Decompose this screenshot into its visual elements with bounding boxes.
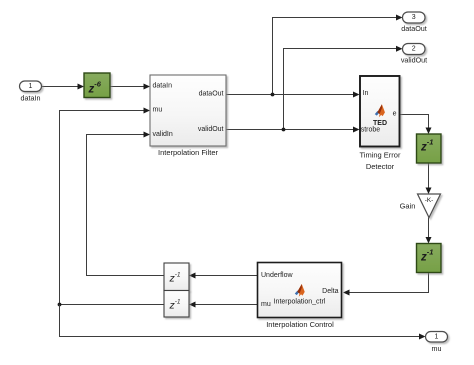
- wire z^-6 to Interpolation Filter dataIn: [110, 86, 146, 88]
- subsystem Interpolation Filter: [150, 75, 226, 146]
- arrowhead into lower z^-1: [189, 302, 196, 308]
- delay block Unit Delay2 z^-1: [417, 244, 442, 273]
- junction dataOut node: [271, 93, 275, 97]
- wire validOut net: filter to TED strobe and up to outport 2: [226, 49, 399, 130]
- svg-text:TED: TED: [373, 120, 387, 127]
- delay block Unit Delay1 z^-1: [417, 134, 442, 163]
- arrowhead into filter dataIn: [144, 84, 151, 90]
- wire Unit Delay2 to Interpolation Control Delta: [347, 273, 429, 293]
- gain block -K-: [418, 194, 441, 218]
- matlab logo in TED: [375, 104, 385, 117]
- svg-text:mu: mu: [432, 344, 442, 353]
- outport 3: [403, 12, 426, 23]
- svg-text:validIn: validIn: [153, 131, 173, 138]
- svg-text:Interpolation Control: Interpolation Control: [266, 320, 334, 329]
- arrowhead into outport 2: [396, 46, 403, 52]
- svg-text:Gain: Gain: [400, 202, 416, 211]
- delay block lower z^-1: [164, 291, 189, 318]
- wire Unit Delay1 to Gain: [428, 163, 430, 190]
- wire TED e to Unit Delay1: [400, 115, 429, 131]
- svg-text:In: In: [363, 90, 369, 97]
- matlab logo in Interpolation_ctrl: [295, 284, 305, 297]
- junction mu node: [58, 303, 62, 307]
- svg-text:dataIn: dataIn: [21, 93, 41, 102]
- wire upper z^-1 to filter validIn: [87, 135, 165, 276]
- arrowhead into z^-6: [78, 84, 85, 90]
- svg-text:Detector: Detector: [366, 162, 395, 171]
- junction validOut node: [282, 128, 286, 132]
- wire dataOut net: filter to TED In and up to outport 3: [226, 18, 399, 95]
- arrowhead into Unit Delay1: [426, 128, 432, 135]
- svg-text:2: 2: [412, 46, 416, 53]
- svg-text:validOut: validOut: [198, 126, 224, 133]
- svg-text:mu: mu: [261, 301, 271, 308]
- svg-text:Delta: Delta: [322, 288, 338, 295]
- wire mu out of control to lower z^-1: [193, 304, 258, 306]
- svg-text:mu: mu: [153, 107, 163, 114]
- svg-text:dataIn: dataIn: [153, 83, 173, 90]
- svg-text:Interpolation_ctrl: Interpolation_ctrl: [274, 298, 326, 305]
- arrowhead into TED In: [353, 92, 360, 98]
- svg-text:e: e: [393, 111, 397, 118]
- arrowhead into filter validIn: [144, 132, 151, 138]
- svg-text:3: 3: [412, 14, 416, 21]
- svg-text:1: 1: [29, 83, 33, 90]
- arrowhead into control Delta: [343, 290, 350, 296]
- arrowhead into filter mu: [144, 108, 151, 114]
- delay block upper z^-1: [164, 263, 189, 291]
- MATLAB function block TED: [360, 76, 400, 147]
- outport 2: [403, 44, 426, 55]
- wire dataIn port to z^-6: [42, 86, 81, 88]
- svg-text:dataOut: dataOut: [401, 24, 427, 33]
- arrowhead into Gain: [426, 188, 432, 195]
- arrowhead into outport 1: [419, 334, 426, 340]
- MATLAB function block Interpolation_ctrl: [258, 263, 342, 318]
- inport 1 dataIn: [20, 81, 42, 92]
- wire Gain to Unit Delay2: [428, 218, 430, 240]
- wire Underflow to upper z^-1: [193, 275, 258, 277]
- svg-text:Timing Error: Timing Error: [360, 151, 401, 160]
- wire lower z^-1 to filter mu: [60, 111, 165, 305]
- svg-text:validOut: validOut: [401, 56, 427, 65]
- delay block z^-6: [84, 73, 110, 98]
- arrowhead into Unit Delay2: [426, 237, 432, 244]
- arrowhead into TED strobe: [353, 127, 360, 133]
- arrowhead into outport 3: [396, 15, 403, 21]
- wire mu node to outport 1: [60, 305, 422, 337]
- svg-text:Underflow: Underflow: [261, 272, 293, 279]
- svg-text:1: 1: [435, 334, 439, 341]
- svg-text:-K-: -K-: [425, 197, 434, 204]
- outport 1 mu: [426, 332, 448, 343]
- svg-text:Interpolation Filter: Interpolation Filter: [158, 148, 219, 157]
- svg-text:dataOut: dataOut: [199, 91, 224, 98]
- arrowhead into upper z^-1: [189, 273, 196, 279]
- svg-text:strobe: strobe: [361, 126, 381, 133]
